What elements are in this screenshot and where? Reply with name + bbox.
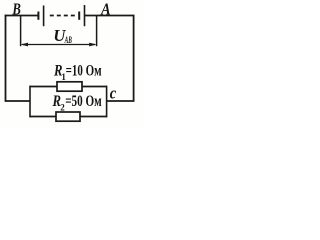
U_AB measure tick right	[96, 16, 98, 46]
wire right vertical	[133, 15, 135, 101]
svg-text:c: c	[110, 84, 117, 103]
svg-text:A: A	[100, 0, 110, 18]
node c junction bar	[106, 86, 108, 118]
battery dashed link (omitted cells)	[50, 15, 75, 17]
wire top-right battery to corner	[85, 15, 134, 17]
wire left vertical	[5, 15, 7, 101]
resistor R1 box	[57, 82, 82, 91]
wire R1 left lead	[30, 86, 57, 88]
battery GB cell2 short plate	[78, 12, 80, 20]
wire R1 right lead	[82, 86, 107, 88]
node left junction bar	[29, 86, 31, 118]
svg-text:=10 Ом: =10 Ом	[66, 63, 102, 80]
battery GB cell1 long plate	[43, 6, 45, 27]
svg-text:=50 Ом: =50 Ом	[65, 93, 102, 110]
wire R2 right lead	[80, 116, 107, 118]
resistor R2 box	[56, 112, 80, 121]
U_AB arrowhead left	[21, 43, 28, 47]
battery GB cell2 long plate	[84, 5, 86, 26]
svg-text:B: B	[12, 0, 21, 18]
U_AB arrowhead right	[89, 43, 96, 47]
wire R2 left lead	[30, 116, 56, 118]
U_AB measure tick left	[20, 16, 22, 46]
wire top-left B to battery	[5, 15, 38, 17]
U_AB double arrow line	[22, 44, 95, 46]
wire bottom-left horizontal to split node	[5, 100, 30, 102]
svg-text:АВ: АВ	[64, 36, 72, 46]
wire mid-right horizontal to node c	[107, 100, 135, 102]
battery GB cell1 short plate	[37, 12, 39, 20]
